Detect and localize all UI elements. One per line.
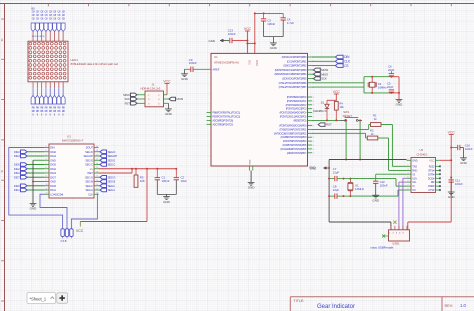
svg-text:(TXD0/OC4A/PCINT17)PD1: (TXD0/OC4A/PCINT17)PD1 (279, 127, 307, 131)
svg-text:100nF: 100nF (465, 147, 473, 151)
svg-text:21: 21 (96, 159, 98, 161)
wire SW1 to ground rail (345, 120, 347, 159)
svg-text:GND: GND (250, 159, 252, 164)
svg-text:VCC: VCC (429, 158, 434, 162)
ground C11 (448, 191, 455, 193)
svg-text:VCC: VCC (448, 130, 456, 134)
svg-text:AVCC: AVCC (255, 60, 258, 67)
svg-text:12MHz: 12MHz (355, 187, 364, 191)
capacitor C3 (263, 13, 265, 18)
power VCC usb (449, 134, 454, 136)
svg-text:DIG5: DIG5 (50, 184, 56, 188)
svg-text:(SCK/XCK1/PCINT5)PB5: (SCK/XCK1/PCINT5)PB5 (282, 77, 307, 81)
ground C10 (460, 157, 467, 159)
svg-text:10K: 10K (140, 179, 145, 183)
svg-text:SEG C: SEG C (85, 163, 93, 167)
svg-text:R2: R2 (370, 128, 374, 132)
ground U3 (32, 198, 34, 204)
title block frame (290, 296, 474, 298)
svg-text:22pF: 22pF (333, 170, 340, 174)
resistor R2 (312, 132, 366, 134)
svg-text:GND: GND (181, 77, 189, 81)
svg-text:5: 5 (46, 163, 47, 165)
svg-text:(XCK0/T0/PCINT20)PD4: (XCK0/T0/PCINT20)PD4 (283, 139, 307, 143)
svg-text:HDR-M-2.54_2x3: HDR-M-2.54_2x3 (141, 87, 161, 91)
svg-text:1N4148W-7-F: 1N4148W-7-F (313, 110, 327, 113)
crystal X1 (349, 179, 351, 183)
svg-text:11: 11 (46, 188, 48, 190)
svg-text:DIG0: DIG0 (14, 150, 20, 154)
svg-text:GND: GND (460, 161, 468, 165)
svg-text:20: 20 (96, 163, 98, 165)
svg-text:UD-: UD- (412, 180, 416, 184)
svg-text:(AIN1/PCINT23)PD7: (AIN1/PCINT23)PD7 (287, 151, 307, 155)
wire crystal X2 rails (312, 82, 364, 84)
svg-text:GND: GND (209, 39, 215, 43)
IC U5 CH340G body (411, 158, 436, 193)
svg-text:4: 4 (46, 159, 47, 161)
svg-text:CH340G: CH340G (417, 152, 428, 156)
svg-text:GND: GND (270, 46, 278, 50)
svg-text:Gear Indicator: Gear Indicator (317, 304, 355, 310)
svg-text:(PCINT8/ADC0)PC0: (PCINT8/ADC0)PC0 (287, 95, 307, 99)
svg-text:6: 6 (408, 181, 409, 183)
svg-text:VCC: VCC (333, 90, 341, 94)
svg-text:DIG2: DIG2 (50, 167, 56, 171)
LED matrix bottom net ports (31, 95, 35, 104)
svg-text:R232: R232 (429, 164, 435, 168)
svg-text:SEG D: SEG D (85, 150, 93, 154)
svg-text:DIG4: DIG4 (50, 154, 56, 158)
wire ISET (99, 172, 133, 174)
svg-text:VCC: VCC (244, 27, 252, 31)
svg-text:8: 8 (46, 176, 47, 178)
svg-text:(XTAL2/TOSC2/PCINT7)PB7: (XTAL2/TOSC2/PCINT7)PB7 (279, 85, 307, 89)
svg-text:SEG A: SEG A (108, 188, 116, 192)
U3 left DIG net ports (27, 151, 45, 153)
svg-text:8: 8 (313, 101, 314, 103)
wire J1 GND (164, 102, 169, 104)
svg-text:(RESET)PC6: (RESET)PC6 (293, 118, 307, 122)
LED matrix bottom pin wires (32, 82, 34, 88)
svg-text:ADC7(PE3/PCINT27): ADC7(PE3/PCINT27) (213, 122, 234, 126)
svg-text:GND: GND (310, 167, 316, 171)
svg-text:DIG4: DIG4 (14, 154, 20, 158)
connector R-pack J2 (61, 229, 64, 237)
USB1 pins (390, 226, 392, 230)
capacitor C1 (156, 169, 158, 178)
svg-text:CS: CS (344, 64, 348, 68)
svg-text:DIG5: DIG5 (14, 184, 20, 188)
svg-text:SEG F: SEG F (85, 184, 93, 188)
svg-text:RST: RST (125, 101, 131, 105)
sheet tab (27, 293, 56, 304)
svg-text:100nF: 100nF (189, 61, 197, 65)
svg-text:SEG F: SEG F (108, 184, 116, 188)
svg-text:1.0: 1.0 (460, 303, 466, 308)
U3 pins (45, 147, 50, 149)
op-amp U3 MAX7219EWG+T body (49, 144, 94, 198)
svg-text:GND: GND (448, 195, 456, 199)
power VCC reset (334, 93, 339, 95)
svg-text:17: 17 (96, 176, 98, 178)
no-connect USB shield (385, 235, 388, 237)
svg-text:(PCINT12/SDA0/ADC4)PC4: (PCINT12/SDA0/ADC4)PC4 (279, 111, 307, 115)
svg-text:100nF: 100nF (455, 182, 463, 186)
svg-text:PB6(PCINT6/XTAL1/TOSC1): PB6(PCINT6/XTAL1/TOSC1) (213, 111, 241, 115)
svg-text:8: 8 (408, 188, 409, 190)
add sheet button (57, 293, 68, 304)
wire VCC usb vertical (450, 135, 452, 223)
wire C3 C4 ground (264, 36, 284, 38)
svg-text:(MISO/RXD1/OC2B/PCINT4)PB4: (MISO/RXD1/OC2B/PCINT4)PB4 (274, 72, 307, 76)
wire C1 C2 ground (157, 193, 176, 195)
svg-text:(OC0B/T1/PCINT21)PD5: (OC0B/T1/PCINT21)PD5 (283, 143, 307, 147)
svg-text:8: 8 (313, 105, 314, 107)
ground X2 (396, 99, 403, 101)
svg-text:GND: GND (248, 186, 256, 190)
svg-text:DIN: DIN (50, 146, 54, 150)
U5 pins (407, 159, 412, 161)
net ports DIN CLK CS (312, 56, 335, 58)
U1 right pins (308, 56, 313, 58)
svg-text:(OC2B/INT1/PCINT19)PD3: (OC2B/INT1/PCINT19)PD3 (280, 135, 307, 139)
wire J1 VCC (164, 94, 168, 96)
resistor R4 (335, 100, 337, 101)
svg-text:SEG G: SEG G (108, 175, 116, 179)
svg-text:DIG7: DIG7 (14, 175, 20, 179)
wire USB D+ D- (403, 177, 407, 179)
wire VCC to USB (408, 221, 451, 223)
svg-text:1 2 3 4 5 6 7 8: 1 2 3 4 5 6 7 8 (32, 36, 45, 38)
svg-text:RTS#: RTS# (428, 169, 435, 173)
wire TXD RXD (392, 165, 406, 167)
svg-text:2: 2 (46, 150, 47, 152)
svg-text:RST: RST (326, 123, 332, 127)
svg-text:DIG6: DIG6 (14, 163, 20, 167)
svg-text:22pF: 22pF (387, 85, 394, 89)
svg-text:RXD: RXD (412, 169, 417, 173)
svg-text:5: 5 (408, 177, 409, 179)
svg-text:4: 4 (408, 173, 409, 175)
connector J1 body (145, 91, 164, 107)
svg-text:(PCINT10/ADC2)PC2: (PCINT10/ADC2)PC2 (286, 103, 307, 107)
capacitor C10 (451, 147, 458, 149)
svg-text:(ICP1/CLKO/PCINT0)PB0: (ICP1/CLKO/PCINT0)PB0 (282, 55, 307, 59)
svg-text:SEG G: SEG G (85, 175, 93, 179)
power VCC main (245, 30, 250, 32)
svg-text:SEG DP: SEG DP (108, 154, 118, 158)
svg-text:XO: XO (412, 188, 416, 192)
svg-text:24: 24 (96, 146, 98, 148)
svg-text:8: 8 (313, 97, 314, 99)
svg-text:(PCINT16/RXD0/OC3A)PD0: (PCINT16/RXD0/OC3A)PD0 (279, 124, 307, 128)
svg-text:9: 9 (46, 180, 47, 182)
svg-text:GND: GND (50, 180, 56, 184)
svg-text:GND: GND (163, 200, 171, 204)
svg-text:(PCINT9/ADC1)PC1: (PCINT9/ADC1)PC1 (287, 99, 307, 103)
net port RST (318, 123, 325, 127)
connector USB1 body (389, 230, 410, 241)
svg-text:DCD#: DCD# (428, 176, 435, 180)
J1 left net ports MISO SCK RST (137, 94, 145, 96)
svg-text:D1: D1 (321, 100, 325, 104)
svg-text:100nF: 100nF (228, 32, 236, 36)
svg-text:R4: R4 (339, 102, 343, 106)
svg-text:AREF: AREF (213, 67, 220, 71)
LED matrix top pin wires (32, 32, 34, 42)
svg-text:19: 19 (96, 167, 98, 169)
svg-text:8: 8 (313, 125, 314, 127)
ground C12 (372, 194, 379, 196)
LED matrix top net ports (31, 23, 35, 32)
svg-text:(XTAL1/TOSC1/PCINT6)PB6: (XTAL1/TOSC1/PCINT6)PB6 (279, 81, 307, 85)
LED matrix LED1 body (28, 41, 68, 82)
svg-text:SEG A: SEG A (85, 188, 93, 192)
svg-text:GND: GND (396, 103, 404, 107)
wire DIN loop (9, 148, 63, 229)
svg-text:UD+: UD+ (412, 176, 417, 180)
svg-text:(PCINT13/SCL0/ADC5)PC5: (PCINT13/SCL0/ADC5)PC5 (280, 115, 307, 119)
svg-text:*Sheet_1: *Sheet_1 (30, 297, 47, 302)
capacitor C12 (376, 173, 407, 175)
diode D1 (326, 100, 328, 104)
svg-text:16: 16 (96, 180, 98, 182)
svg-text:DIG1: DIG1 (50, 188, 56, 192)
U1 left pins (207, 112, 212, 114)
svg-text:8: 8 (313, 137, 314, 139)
svg-text:10k: 10k (339, 105, 344, 109)
svg-text:18: 18 (96, 171, 98, 173)
svg-text:R1: R1 (373, 114, 377, 118)
svg-text:DIG7: DIG7 (50, 175, 56, 179)
wire reset vcc (335, 94, 337, 100)
svg-text:(MOSI/TXD1/OC2A/PCINT3)PB3: (MOSI/TXD1/OC2A/PCINT3)PB3 (275, 68, 307, 72)
no-connect USB pin2 (394, 223, 396, 226)
svg-text:GND: GND (30, 207, 38, 211)
svg-text:SEG DP: SEG DP (84, 154, 94, 158)
crystal X2 (371, 77, 373, 83)
svg-text:GND: GND (165, 112, 173, 116)
svg-text:ADC6(PE2/PCINT26): ADC6(PE2/PCINT26) (213, 118, 234, 122)
wire V+ rail (98, 168, 100, 170)
svg-text:(OC1A/PCINT1)PB1: (OC1A/PCINT1)PB1 (287, 59, 307, 63)
svg-text:TITLE:: TITLE: (294, 299, 305, 303)
svg-text:MAX7219EWG+T: MAX7219EWG+T (62, 138, 84, 142)
svg-text:PB7(PCINT7/XTAL2/TOSC2): PB7(PCINT7/XTAL2/TOSC2) (213, 115, 241, 119)
VCC label at R-pack (79, 222, 81, 227)
ground J1 (165, 108, 172, 110)
capacitor C11 (449, 179, 454, 181)
svg-text:23: 23 (96, 150, 98, 152)
ground U1 (248, 181, 255, 183)
svg-text:1 2 3 4 5: 1 2 3 4 5 (389, 233, 404, 235)
svg-text:SCK: SCK (321, 77, 327, 81)
svg-text:ATMEGA328PB-AU: ATMEGA328PB-AU (214, 61, 239, 65)
U1 ground pins (248, 166, 250, 171)
wire VCC decoupling top (254, 13, 256, 43)
svg-text:8: 8 (313, 141, 314, 143)
svg-text:CLK: CLK (88, 192, 93, 196)
svg-text:GND: GND (372, 198, 380, 202)
svg-text:DIG3: DIG3 (50, 171, 56, 175)
svg-text:4.7uF: 4.7uF (287, 21, 294, 25)
svg-text:DTR#: DTR# (428, 172, 435, 176)
svg-text:LOAD(CS#): LOAD(CS#) (50, 192, 63, 196)
wire ground rail to USB (329, 159, 406, 161)
svg-text:SEG E: SEG E (85, 158, 93, 162)
svg-text:REV:: REV: (445, 304, 454, 308)
svg-text:CTS#: CTS# (428, 188, 435, 192)
svg-text:SEG E: SEG E (108, 158, 116, 162)
svg-text:DIG0: DIG0 (50, 150, 56, 154)
svg-text:D S B: D S B (61, 240, 67, 243)
svg-text:1: 1 (46, 146, 47, 148)
wire VCC run to R-pack (146, 169, 148, 222)
svg-text:micro USBFemale: micro USBFemale (370, 245, 393, 249)
ground C1 C2 (163, 196, 170, 198)
svg-text:22pF: 22pF (333, 188, 340, 192)
svg-text:10uF: 10uF (181, 179, 188, 183)
U3 ground wire (33, 159, 45, 161)
J1 MOSI net port (164, 98, 170, 100)
svg-text:3: 3 (46, 154, 47, 156)
svg-text:GND: GND (412, 158, 418, 162)
wire LOAD loop (40, 194, 67, 229)
svg-text:22: 22 (96, 154, 98, 156)
svg-text:SEG B: SEG B (108, 180, 116, 184)
svg-text:MOSI: MOSI (176, 97, 183, 101)
sheet frame border (4, 4, 6, 311)
svg-text:15: 15 (96, 184, 98, 186)
svg-text:8: 8 (313, 116, 314, 118)
svg-text:SEG D: SEG D (108, 150, 116, 154)
svg-text:TXD: TXD (412, 164, 417, 168)
svg-text:VCC: VCC (248, 60, 250, 65)
U1 AREF pin (207, 68, 212, 70)
ground C9 (181, 73, 188, 75)
transistor U1 ATMEGA328PB-AU body (211, 53, 308, 166)
svg-text:6: 6 (46, 167, 47, 169)
svg-text:ISET: ISET (87, 171, 93, 175)
svg-text:DSR#: DSR# (428, 184, 435, 188)
svg-text:8X8LEDLED data 2.0mmPoint path: 8X8LEDLED data 2.0mmPoint path red (71, 62, 119, 66)
wire XI (350, 178, 396, 180)
svg-text:GND: GND (50, 158, 56, 162)
svg-text:SEG B: SEG B (85, 180, 93, 184)
svg-text:DIG2: DIG2 (14, 167, 20, 171)
svg-text:DIG6: DIG6 (50, 163, 56, 167)
svg-text:3: 3 (408, 169, 409, 171)
svg-text:(INT0/OC3B/OC4B/PCINT18)PD2: (INT0/OC3B/OC4B/PCINT18)PD2 (274, 131, 307, 135)
svg-text:7: 7 (46, 171, 47, 173)
svg-text:14: 14 (96, 188, 98, 190)
resistor R1 (312, 128, 369, 130)
svg-text:VCC: VCC (163, 79, 171, 83)
svg-text:12: 12 (46, 193, 48, 195)
svg-text:1: 1 (408, 159, 409, 161)
ground flag U5 rail (310, 167, 324, 169)
svg-text:2: 2 (408, 165, 409, 167)
net ports MOSI MISO SCK (312, 69, 314, 71)
U3 right SEG net ports (99, 151, 101, 153)
wire reset net (312, 119, 341, 121)
svg-text:USB1: USB1 (392, 242, 400, 246)
svg-text:U1: U1 (214, 55, 218, 59)
svg-text:VCC: VCC (76, 229, 84, 233)
svg-text:100nF: 100nF (267, 22, 275, 26)
wire XO (350, 195, 398, 197)
power VCC J1 (165, 83, 170, 85)
svg-text:8: 8 (313, 153, 314, 155)
capacitor C4 (282, 13, 284, 17)
svg-text:8: 8 (313, 149, 314, 151)
wire X2 gnd (398, 77, 400, 100)
wire CLK loop (71, 194, 98, 229)
svg-text:(PCINT11/ADC3)PC3: (PCINT11/ADC3)PC3 (286, 107, 307, 111)
ground C3 C4 (270, 42, 277, 44)
svg-text:(OC0A/AIN0/PCINT22)PD6: (OC0A/AIN0/PCINT22)PD6 (280, 147, 307, 151)
svg-text:8: 8 (313, 145, 314, 147)
svg-text:(SS/OC1B/PCINT2)PB2: (SS/OC1B/PCINT2)PB2 (283, 64, 307, 68)
svg-text:DIG3: DIG3 (14, 171, 20, 175)
svg-text:DIG1: DIG1 (14, 188, 20, 192)
wire VCC to U1 (246, 31, 248, 43)
svg-text:100nF: 100nF (380, 184, 388, 188)
svg-text:7: 7 (408, 185, 409, 187)
svg-text:DOUT: DOUT (86, 146, 94, 150)
svg-text:SEG C: SEG C (108, 163, 116, 167)
resistor R3 (135, 169, 137, 175)
svg-text:10: 10 (46, 184, 48, 186)
svg-text:16MHz: 16MHz (378, 86, 387, 90)
capacitor C2 (175, 169, 177, 178)
svg-text:U5: U5 (420, 148, 424, 152)
svg-text:100nF: 100nF (162, 179, 170, 183)
